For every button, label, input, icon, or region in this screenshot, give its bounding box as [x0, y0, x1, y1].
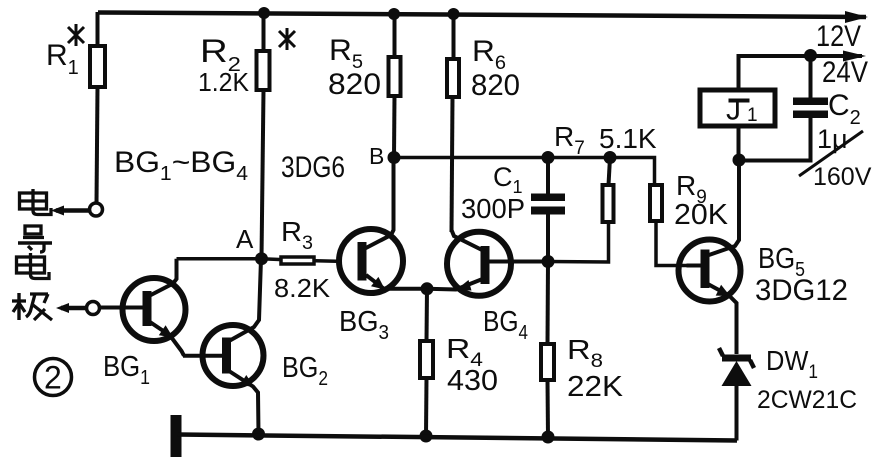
label BG2	[282, 352, 328, 390]
svg-text:1: 1	[747, 105, 758, 126]
label R3 8.2K	[274, 216, 331, 303]
label electrode characters 电导电极	[12, 189, 52, 320]
label BG1	[103, 351, 150, 389]
figure number 2	[35, 359, 72, 396]
svg-text:BG1: BG1	[103, 351, 150, 389]
capacitor C2	[739, 49, 828, 161]
label C1 300P	[461, 162, 525, 224]
svg-text:R7: R7	[554, 121, 585, 159]
svg-text:R3: R3	[281, 216, 313, 254]
transistor BG3	[339, 158, 427, 294]
label R1	[46, 39, 79, 79]
terminal input electrode bottom	[56, 302, 100, 315]
svg-text:2CW21C: 2CW21C	[757, 386, 857, 414]
svg-text:300P: 300P	[461, 193, 525, 224]
transistor BG2	[183, 259, 265, 441]
svg-text:BG2: BG2	[282, 352, 328, 390]
svg-text:820: 820	[328, 68, 381, 101]
label R7 5.1K	[554, 121, 657, 159]
asterisk mark for R2	[279, 28, 295, 50]
label BG5 3DG12	[755, 243, 848, 307]
label BG4	[483, 306, 528, 344]
label R6 820	[471, 35, 520, 102]
svg-text:A: A	[236, 224, 254, 254]
asterisk mark for R1	[68, 24, 84, 46]
resistor R1	[90, 12, 105, 203]
label R5 820	[328, 34, 381, 101]
svg-text:8.2K: 8.2K	[274, 273, 331, 303]
label R9 20K	[674, 170, 729, 231]
label BG1~BG4 3DG6	[114, 146, 345, 185]
svg-text:1.2K: 1.2K	[198, 67, 250, 97]
wire 24V supply rail	[739, 56, 863, 90]
label 12V	[816, 20, 861, 53]
label R8 22K	[567, 334, 624, 403]
resistor R5	[388, 8, 401, 158]
label 24V	[822, 56, 868, 89]
zener diode DW1	[719, 348, 754, 441]
resistor R2	[257, 7, 271, 259]
label 1u 160V	[799, 124, 872, 191]
svg-text:820: 820	[471, 69, 520, 102]
power arrow 12V	[845, 11, 868, 23]
transistor BG5	[679, 160, 741, 354]
svg-text:24V: 24V	[822, 56, 868, 89]
svg-text:B: B	[369, 143, 384, 169]
svg-text:R1: R1	[46, 39, 79, 79]
svg-text:5.1K: 5.1K	[599, 123, 657, 154]
resistor R4	[420, 289, 434, 443]
svg-text:1μ: 1μ	[817, 124, 848, 154]
svg-text:430: 430	[447, 365, 498, 397]
svg-text:2: 2	[44, 360, 62, 396]
resistor R3	[262, 257, 337, 264]
svg-text:J: J	[726, 94, 741, 127]
svg-text:22K: 22K	[567, 371, 624, 403]
resistor R8	[541, 262, 555, 444]
svg-text:BG3: BG3	[339, 306, 389, 344]
junction J1 C2 bottom node	[733, 154, 746, 167]
svg-text:R8: R8	[567, 334, 603, 372]
resistor R9	[650, 185, 687, 266]
power arrow 24V	[843, 51, 866, 62]
label BG3	[339, 306, 389, 344]
label R2 1.2K	[198, 33, 250, 97]
svg-text:3DG12: 3DG12	[755, 274, 848, 307]
capacitor C1	[531, 151, 565, 268]
svg-text:DW1: DW1	[766, 345, 818, 383]
svg-text:12V: 12V	[816, 20, 861, 53]
wire node B to R9 top	[394, 158, 655, 186]
node A	[236, 224, 268, 265]
wire node A horizontal	[177, 257, 262, 261]
junction common emitters BG3 BG4	[421, 282, 434, 295]
wire top 12V supply rail	[98, 13, 866, 18]
ground	[171, 415, 182, 457]
relay J1	[700, 56, 775, 160]
terminal input electrode top	[51, 203, 103, 216]
transistor BG1	[101, 259, 186, 356]
label R4 430	[446, 333, 498, 397]
transistor BG4	[427, 230, 548, 296]
svg-text:BG4: BG4	[483, 306, 528, 344]
svg-text:3DG6: 3DG6	[281, 151, 345, 184]
node B	[369, 143, 401, 169]
svg-text:160V: 160V	[813, 163, 872, 191]
svg-text:C2: C2	[828, 89, 861, 129]
wire bottom ground rail	[178, 435, 737, 441]
label C2	[828, 89, 861, 129]
svg-text:BG1~BG4: BG1~BG4	[114, 146, 248, 185]
svg-text:C1: C1	[493, 162, 523, 197]
resistor R7	[548, 151, 617, 262]
svg-text:20K: 20K	[674, 199, 729, 231]
resistor R6	[447, 8, 460, 232]
label DW1 2CW21C	[757, 345, 857, 414]
